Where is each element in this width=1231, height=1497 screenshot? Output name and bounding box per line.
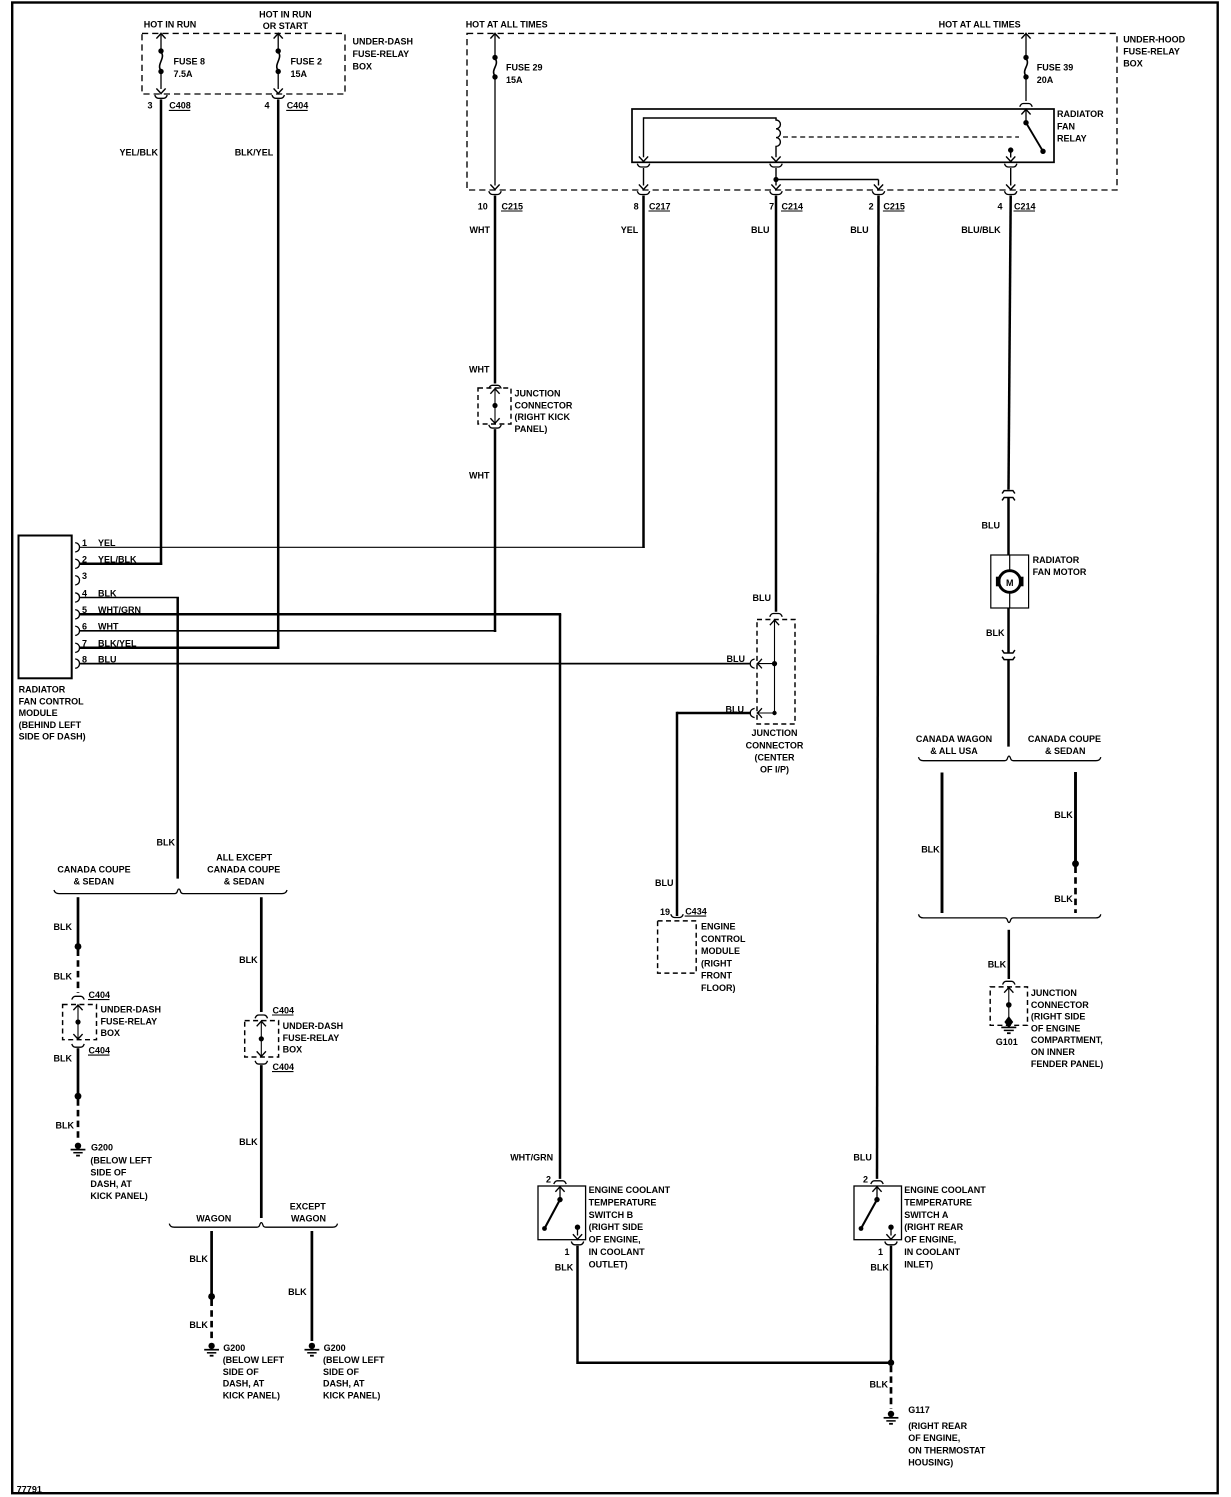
svg-text:7: 7 [769,201,774,211]
svg-text:C404: C404 [273,1062,295,1072]
svg-text:OF ENGINE,: OF ENGINE, [589,1235,641,1245]
svg-text:DASH, AT: DASH, AT [323,1379,365,1389]
svg-text:CONNECTOR: CONNECTOR [746,740,804,750]
svg-text:KICK PANEL): KICK PANEL) [323,1390,380,1400]
svg-text:FUSE-RELAY: FUSE-RELAY [283,1033,340,1043]
svg-text:RADIATOR: RADIATOR [1057,109,1104,119]
svg-text:CANADA COUPE: CANADA COUPE [57,865,130,875]
svg-text:DASH, AT: DASH, AT [223,1379,265,1389]
svg-text:BLU: BLU [982,521,1001,531]
svg-text:OF ENGINE,: OF ENGINE, [908,1433,960,1443]
svg-text:FUSE 39: FUSE 39 [1037,62,1074,72]
wire pin6 WHT row [80,630,496,632]
wire pin1 YEL row [80,546,645,548]
relay coil top wire [644,117,777,119]
wire pin8 BLU row [80,663,750,665]
ground G101 [1004,1016,1013,1028]
svg-text:IN COOLANT: IN COOLANT [904,1247,960,1257]
svg-text:FUSE-RELAY: FUSE-RELAY [1123,47,1180,57]
svg-text:HOT IN RUN: HOT IN RUN [259,10,312,20]
svg-text:BOX: BOX [353,61,373,71]
svg-text:(CENTER: (CENTER [755,752,795,762]
brace split to variants (top right) [919,756,1101,761]
svg-text:OF I/P): OF I/P) [760,765,789,775]
svg-text:CANADA WAGON: CANADA WAGON [916,734,992,744]
svg-text:ON THERMOSTAT: ON THERMOSTAT [908,1445,986,1455]
svg-text:HOUSING): HOUSING) [908,1457,953,1467]
svg-text:SIDE OF: SIDE OF [323,1367,360,1377]
coolant switch B pin 1 connector [571,1242,583,1245]
wire BLK canada wagon branch [941,773,944,914]
coolant switch A pin 2 connector [871,1181,883,1184]
wire BLK to variant brace [1007,660,1010,747]
svg-text:BLK: BLK [239,955,258,965]
svg-text:3: 3 [82,571,87,581]
svg-text:(BELOW LEFT: (BELOW LEFT [90,1156,152,1166]
wire YEL/BLK from C408 to module pin 2 [160,99,163,565]
relay switch contacts [1023,120,1028,125]
junction connector (right kick panel) [489,385,501,388]
ground G200 (wagon) [208,1343,214,1349]
svg-text:3: 3 [147,101,152,111]
svg-text:OUTLET): OUTLET) [589,1259,628,1269]
module pin 5 (WHT/GRN) [75,610,79,619]
svg-text:RELAY: RELAY [1057,134,1087,144]
svg-text:1: 1 [564,1247,569,1257]
wire fuse 39 to relay [1025,78,1027,101]
svg-text:& SEDAN: & SEDAN [74,876,115,886]
svg-text:FRONT: FRONT [701,971,732,981]
ground G200 (coupe/sedan) [75,1143,81,1149]
svg-text:BLK: BLK [986,628,1005,638]
svg-text:BOX: BOX [283,1045,303,1055]
wire BLK pin4 down to variant brace [176,598,179,879]
junction node inside box (pin7/pin2) [773,177,778,182]
svg-text:2: 2 [869,201,874,211]
wire BLK all-except branch [260,897,263,1012]
module pin 1 (YEL) [75,543,79,552]
svg-text:FAN MOTOR: FAN MOTOR [1033,567,1087,577]
svg-text:BLK: BLK [189,1320,208,1330]
svg-text:G101: G101 [996,1037,1018,1047]
svg-text:MODULE: MODULE [19,708,58,718]
svg-text:CANADA COUPE: CANADA COUPE [207,865,280,875]
svg-text:SIDE OF DASH): SIDE OF DASH) [19,732,86,742]
svg-text:BLK: BLK [56,1121,75,1131]
svg-text:IN COOLANT: IN COOLANT [589,1247,645,1257]
brace split to variants (left) [54,889,287,894]
svg-text:UNDER-DASH: UNDER-DASH [101,1005,162,1015]
fuse 39 (20A) [1021,33,1030,38]
svg-text:BLK: BLK [157,838,176,848]
svg-text:ALL EXCEPT: ALL EXCEPT [216,853,272,863]
junction connector terminal (ECM BLU row) [750,708,754,717]
wire fuse 29 to pin 10 [494,78,496,186]
svg-text:YEL: YEL [98,538,116,548]
svg-text:& SEDAN: & SEDAN [224,876,265,886]
svg-text:(BELOW LEFT: (BELOW LEFT [323,1355,385,1365]
svg-text:OF ENGINE: OF ENGINE [1031,1023,1081,1033]
svg-text:BLU: BLU [853,1153,872,1163]
connector C434 pin 19 [671,914,683,917]
connector C214 pin 7 [770,191,782,194]
svg-text:ENGINE: ENGINE [701,922,736,932]
svg-text:C214: C214 [782,201,804,211]
relay actuation dashed link [783,136,1019,138]
fuse 8 (7.5A) [156,33,165,38]
svg-text:SWITCH B: SWITCH B [589,1210,634,1220]
svg-text:(BEHIND LEFT: (BEHIND LEFT [19,720,82,730]
connector C404 (into under-dash box) [72,996,84,999]
svg-text:BLK: BLK [189,1254,208,1264]
junction connector (center of I/P) [770,614,782,617]
svg-text:BLK/YEL: BLK/YEL [235,147,274,157]
svg-text:(RIGHT REAR: (RIGHT REAR [904,1222,963,1232]
svg-text:CONTROL: CONTROL [701,934,746,944]
under-dash fuse-relay box (ground path, all-except) [245,1021,279,1057]
svg-text:FUSE 29: FUSE 29 [506,62,543,72]
svg-text:BLK: BLK [54,922,73,932]
wire BLK/YEL from C404 to module pin 7 [277,99,280,649]
svg-text:2: 2 [546,1175,551,1185]
wire WHT junction to module pin 6 [494,429,497,632]
svg-text:BLU/BLK: BLU/BLK [961,225,1001,235]
fuse 29 (15A) [490,33,499,38]
wire pin4 BLK row [80,597,179,599]
svg-text:BLK: BLK [988,960,1007,970]
svg-text:C217: C217 [649,201,671,211]
engine coolant temperature switch A [854,1186,902,1240]
splice to ground G200 [75,1093,82,1100]
svg-text:4: 4 [997,201,1002,211]
inline connector on BLU wire [1002,491,1015,494]
svg-text:C404: C404 [89,1045,111,1055]
wire BLK motor to inline connector [1007,608,1010,653]
svg-text:M: M [1006,578,1014,588]
svg-text:SWITCH A: SWITCH A [904,1210,949,1220]
svg-text:OF ENGINE,: OF ENGINE, [904,1235,956,1245]
svg-text:FUSE-RELAY: FUSE-RELAY [353,49,410,59]
svg-text:UNDER-DASH: UNDER-DASH [353,37,414,47]
connector C404 pin 4 [272,95,284,98]
junction splice of switch grounds [888,1360,894,1366]
svg-text:PANEL): PANEL) [515,424,548,434]
svg-text:BLK: BLK [1054,810,1073,820]
svg-text:BLK: BLK [870,1380,889,1390]
svg-text:C408: C408 [169,101,191,111]
splice on coupe branch [1072,860,1079,867]
svg-text:FAN: FAN [1057,121,1075,131]
svg-text:1: 1 [82,538,87,548]
svg-text:SIDE OF: SIDE OF [90,1167,127,1177]
svg-text:FAN CONTROL: FAN CONTROL [19,696,84,706]
wire BLK coupe/sedan branch [77,897,80,946]
svg-text:WAGON: WAGON [196,1214,231,1224]
engine control module (dashed) [658,921,697,973]
junction connector (right side of engine compartment) [1003,981,1015,984]
splice coupe/sedan branch [75,943,82,950]
svg-text:G200: G200 [324,1343,346,1353]
wire BLK dashed to G117 [890,1366,893,1409]
svg-text:BLU: BLU [753,593,772,603]
relay coil [776,118,780,157]
svg-text:(RIGHT KICK: (RIGHT KICK [515,412,571,422]
svg-text:2: 2 [863,1175,868,1185]
svg-text:OR START: OR START [263,21,309,31]
module pin 8 (BLU) [75,659,79,668]
svg-text:TEMPERATURE: TEMPERATURE [904,1197,972,1207]
radiator fan relay U1 box [632,109,1054,162]
svg-text:BOX: BOX [101,1028,121,1038]
svg-text:C215: C215 [502,201,524,211]
svg-text:G200: G200 [223,1343,245,1353]
svg-text:UNDER-HOOD: UNDER-HOOD [1123,35,1185,45]
svg-text:BLU: BLU [655,878,674,888]
connector C214 pin 4 [1005,191,1017,194]
svg-text:JUNCTION: JUNCTION [515,389,561,399]
svg-text:ON INNER: ON INNER [1031,1047,1076,1057]
svg-text:WHT: WHT [470,225,491,235]
svg-text:MODULE: MODULE [701,946,740,956]
wire BLU junction I/P to ECM [677,712,751,715]
module pin 3 [75,576,79,585]
svg-text:C404: C404 [287,101,309,111]
connector C408 pin 3 [155,95,167,98]
svg-text:(RIGHT SIDE: (RIGHT SIDE [589,1222,644,1232]
wire BLU/BLK pin4 C214 down to inline connector [1009,196,1011,490]
brace split wagon variants [169,1223,337,1228]
svg-text:RADIATOR: RADIATOR [19,685,66,695]
radiator fan control module box [19,536,72,679]
svg-text:WHT/GRN: WHT/GRN [510,1153,553,1163]
svg-text:(RIGHT SIDE: (RIGHT SIDE [1031,1012,1086,1022]
wire BLU pin7 C214 down to junction connector I/P [775,196,778,612]
connector C404 (into under-dash box, all-except) [255,1015,267,1018]
wire BLU to radiator fan motor [1007,497,1010,555]
svg-text:4: 4 [264,101,269,111]
svg-text:YEL: YEL [621,225,639,235]
wire BLK switch B to junction [578,1246,892,1363]
svg-text:C214: C214 [1014,201,1036,211]
svg-text:G200: G200 [91,1142,113,1152]
svg-text:C404: C404 [89,990,111,1000]
svg-text:ENGINE COOLANT: ENGINE COOLANT [589,1185,671,1195]
engine coolant temperature switch B [538,1186,586,1240]
svg-text:HOT IN RUN: HOT IN RUN [144,19,197,29]
module pin 6 (WHT) [75,626,79,635]
wire BLK dashed to G200 [77,1099,80,1140]
junction connector terminal (module BLU row) [750,659,754,668]
svg-text:CONNECTOR: CONNECTOR [1031,1000,1089,1010]
svg-text:CONNECTOR: CONNECTOR [515,400,573,410]
connector C215 pin 2 [872,191,884,194]
wire pin7 BLK/YEL row [80,647,279,650]
module pin 2 (YEL/BLK) [75,559,79,568]
splice wagon branch [208,1293,215,1300]
svg-text:RADIATOR: RADIATOR [1033,555,1080,565]
coolant switch B pin 2 connector [554,1181,566,1184]
wire BLK except-wagon branch [311,1231,314,1341]
module pin 4 (BLK) [75,593,79,602]
under-dash fuse-relay box (ground path, coupe) [63,1005,97,1040]
wire BLK to junction connector G101 [1008,930,1011,979]
connector C215 pin 10 [489,191,501,194]
svg-text:JUNCTION: JUNCTION [1031,988,1077,998]
svg-text:FUSE 8: FUSE 8 [174,56,206,66]
svg-text:FENDER PANEL): FENDER PANEL) [1031,1059,1103,1069]
svg-text:HOT AT ALL TIMES: HOT AT ALL TIMES [939,19,1021,29]
svg-text:KICK PANEL): KICK PANEL) [223,1390,280,1400]
svg-text:C215: C215 [883,201,905,211]
svg-text:JUNCTION: JUNCTION [751,728,797,738]
svg-text:YEL/BLK: YEL/BLK [120,147,159,157]
svg-text:7.5A: 7.5A [174,69,194,79]
svg-text:WHT: WHT [469,365,490,375]
svg-text:INLET): INLET) [904,1259,933,1269]
under-hood fuse-relay box (dashed) [467,33,1117,190]
svg-text:G117: G117 [908,1405,930,1415]
ground G117 [888,1411,894,1417]
module pin 7 (BLK/YEL) [75,643,79,652]
svg-text:& ALL USA: & ALL USA [930,746,978,756]
wire BLK C404 to splice [77,1048,80,1096]
svg-text:BLK: BLK [870,1263,889,1273]
svg-text:C404: C404 [273,1005,295,1015]
svg-text:20A: 20A [1037,75,1054,85]
connector C217 pin 8 [637,191,649,194]
wire pin2 YEL/BLK row [80,563,162,566]
svg-text:UNDER-DASH: UNDER-DASH [283,1021,344,1031]
svg-text:BOX: BOX [1123,58,1143,68]
fuse 2 (15A) [274,33,283,38]
svg-text:BLK: BLK [54,971,73,981]
svg-text:8: 8 [634,201,639,211]
relay pin stubs to box bottom [637,164,649,167]
svg-text:ENGINE COOLANT: ENGINE COOLANT [904,1185,986,1195]
wire BLK dashed coupe branch [1074,867,1077,914]
svg-text:C434: C434 [685,906,707,916]
svg-text:& SEDAN: & SEDAN [1045,746,1086,756]
svg-text:BLK: BLK [288,1287,307,1297]
svg-text:(RIGHT REAR: (RIGHT REAR [908,1421,967,1431]
svg-text:DASH, AT: DASH, AT [90,1179,132,1189]
wire YEL pin8 C217 down to module pin 1 [642,196,645,549]
inline connector on BLK wire [1002,650,1015,653]
svg-text:WHT: WHT [469,471,490,481]
svg-text:77791: 77791 [17,1485,42,1495]
svg-text:BLK: BLK [921,844,940,854]
wire WHT pin10 down to junction connector [494,196,497,384]
svg-text:SIDE OF: SIDE OF [223,1367,260,1377]
relay coil left leg [643,117,645,157]
wire BLK wagon branch [210,1231,213,1297]
svg-text:EXCEPT: EXCEPT [290,1201,327,1211]
svg-text:BLK: BLK [239,1137,258,1147]
svg-text:CANADA COUPE: CANADA COUPE [1028,734,1101,744]
svg-text:19: 19 [660,907,670,917]
wire BLK to wagon brace [260,1065,263,1218]
ground G200 (except wagon) [309,1343,315,1349]
svg-text:FLOOR): FLOOR) [701,983,736,993]
svg-text:BLK: BLK [1054,894,1073,904]
wire WHT/GRN pin5 down to coolant switch B [559,614,562,1179]
wire BLU pin2 C215 down to coolant switch A [877,196,879,1179]
under-dash fuse-relay box (dashed) [142,33,345,94]
svg-text:1: 1 [878,1247,883,1257]
coolant switch A pin 1 connector [885,1242,897,1245]
svg-text:(BELOW LEFT: (BELOW LEFT [223,1355,285,1365]
radiator fan motor M1 [991,555,1029,608]
wire BLK dashed to C404 [77,950,80,994]
svg-text:TEMPERATURE: TEMPERATURE [589,1197,657,1207]
svg-text:COMPARTMENT,: COMPARTMENT, [1031,1035,1103,1045]
svg-text:KICK PANEL): KICK PANEL) [90,1191,147,1201]
svg-text:BLU: BLU [751,225,770,235]
connector C404 (out of under-dash box, all-except) [255,1061,267,1064]
wire BLK canada coupe branch [1074,772,1077,864]
svg-text:FUSE 2: FUSE 2 [291,56,323,66]
connector C404 (out of under-dash box) [72,1044,84,1047]
svg-text:BLK: BLK [555,1263,574,1273]
wire pin5 WHT/GRN row [80,613,561,616]
svg-text:FUSE-RELAY: FUSE-RELAY [101,1016,158,1026]
svg-text:BLK: BLK [54,1054,73,1064]
wire BLK dashed wagon to G200 [210,1300,213,1341]
svg-text:(RIGHT: (RIGHT [701,958,732,968]
svg-text:15A: 15A [506,75,523,85]
svg-text:HOT AT ALL TIMES: HOT AT ALL TIMES [466,19,548,29]
brace merge from variants (right) [919,914,1101,922]
svg-text:WAGON: WAGON [291,1214,326,1224]
svg-text:15A: 15A [291,69,308,79]
svg-text:10: 10 [478,201,488,211]
wire BLK switch A down to junction [890,1246,893,1363]
svg-text:BLU: BLU [850,225,869,235]
